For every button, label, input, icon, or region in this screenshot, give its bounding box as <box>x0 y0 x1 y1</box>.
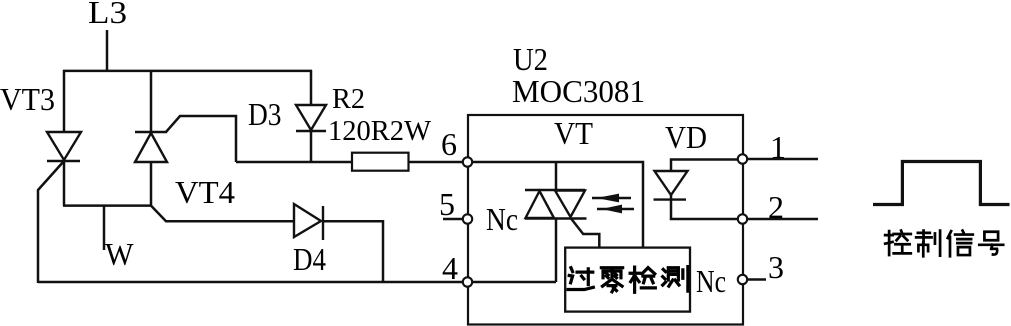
svg-text:D3: D3 <box>248 96 282 132</box>
svg-text:5: 5 <box>439 186 455 222</box>
svg-text:MOC3081: MOC3081 <box>512 73 645 109</box>
svg-text:W: W <box>105 236 134 272</box>
svg-text:4: 4 <box>442 250 458 286</box>
svg-text:U2: U2 <box>513 41 548 77</box>
svg-text:120R2W: 120R2W <box>328 116 432 147</box>
svg-text:L3: L3 <box>88 0 127 30</box>
svg-text:VD: VD <box>665 119 707 155</box>
svg-text:D4: D4 <box>293 241 326 277</box>
svg-text:VT4: VT4 <box>175 174 235 210</box>
svg-text:1: 1 <box>770 129 786 165</box>
svg-text:VT3: VT3 <box>0 81 55 117</box>
svg-text:6: 6 <box>441 126 457 162</box>
svg-text:VT: VT <box>554 115 593 151</box>
svg-text:R2: R2 <box>332 84 365 115</box>
svg-text:3: 3 <box>768 249 784 285</box>
svg-text:Nc: Nc <box>696 263 726 299</box>
svg-text:2: 2 <box>768 189 784 225</box>
svg-text:Nc: Nc <box>486 201 518 237</box>
